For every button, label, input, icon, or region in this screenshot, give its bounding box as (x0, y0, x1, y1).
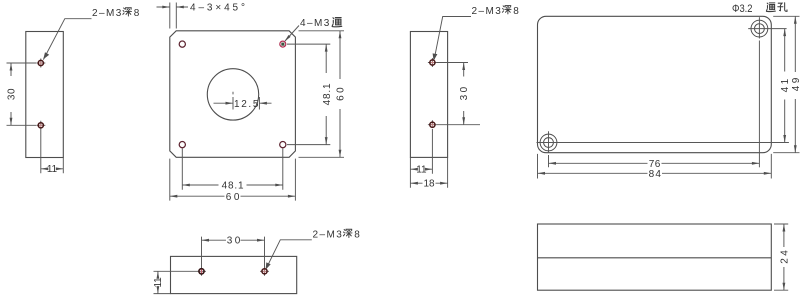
svg-text:4–M3: 4–M3 (300, 18, 330, 29)
svg-text:30: 30 (7, 88, 18, 100)
svg-text:48.1: 48.1 (322, 83, 333, 105)
svg-text:11: 11 (416, 165, 427, 176)
svg-text:30: 30 (227, 236, 241, 247)
svg-text:8: 8 (134, 8, 140, 19)
svg-text:41: 41 (780, 78, 791, 92)
svg-text:49: 49 (791, 77, 802, 91)
svg-text:30: 30 (459, 86, 470, 100)
svg-text:8: 8 (354, 230, 360, 241)
svg-text:11: 11 (47, 164, 58, 175)
svg-text:Φ3.2: Φ3.2 (732, 3, 753, 15)
svg-text:2–M3: 2–M3 (472, 6, 502, 17)
svg-text:48.1: 48.1 (222, 181, 244, 192)
svg-text:8: 8 (513, 6, 519, 17)
svg-text:2–M3: 2–M3 (313, 230, 343, 241)
svg-text:12.5: 12.5 (234, 99, 259, 110)
svg-text:24: 24 (779, 250, 790, 264)
svg-text:84: 84 (649, 169, 662, 180)
svg-text:4–3×45°: 4–3×45° (190, 3, 245, 14)
svg-text:60: 60 (336, 87, 347, 101)
svg-text:11: 11 (153, 277, 164, 288)
svg-text:2–M3: 2–M3 (92, 8, 122, 19)
svg-text:60: 60 (226, 192, 240, 203)
svg-text:18: 18 (424, 179, 435, 190)
